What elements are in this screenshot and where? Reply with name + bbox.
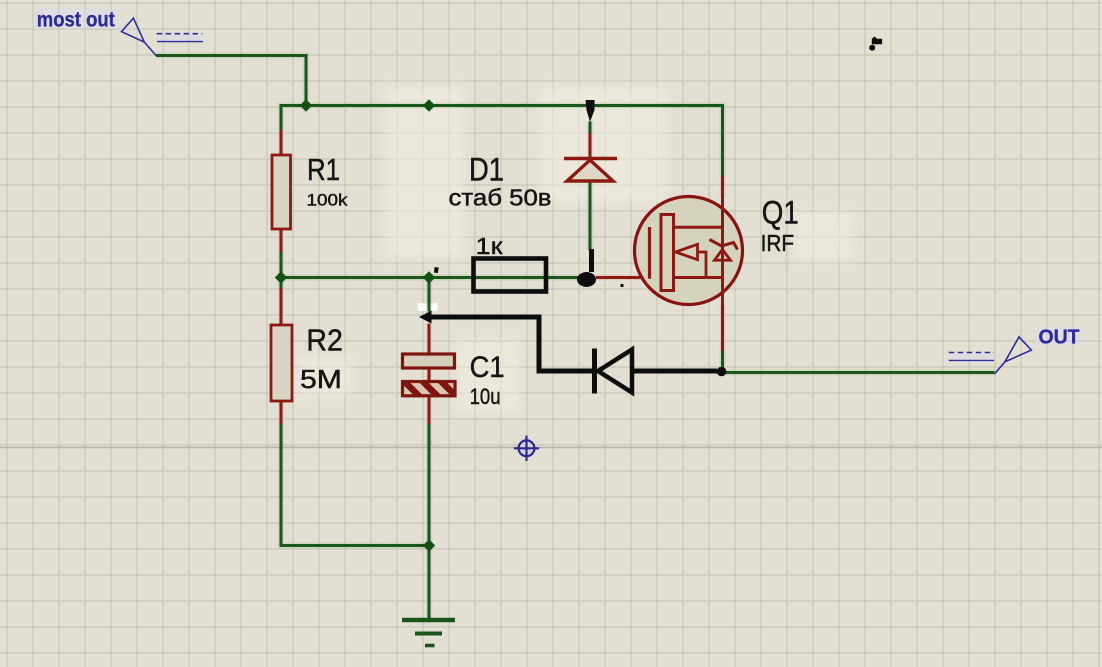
svg-text:5M: 5M (300, 364, 342, 394)
svg-text:R1: R1 (307, 152, 340, 187)
svg-text:IRF: IRF (761, 230, 795, 256)
svg-text:10u: 10u (470, 384, 501, 409)
svg-text:Q1: Q1 (762, 194, 799, 230)
svg-text:most out: most out (37, 9, 115, 32)
svg-text:D1: D1 (469, 152, 504, 188)
svg-text:стаб 50в: стаб 50в (449, 185, 552, 211)
svg-text:C1: C1 (470, 351, 505, 384)
svg-text:100k: 100k (307, 191, 349, 210)
svg-text:1к: 1к (476, 233, 504, 259)
svg-text:OUT: OUT (1039, 327, 1080, 349)
svg-text:R2: R2 (306, 324, 343, 358)
